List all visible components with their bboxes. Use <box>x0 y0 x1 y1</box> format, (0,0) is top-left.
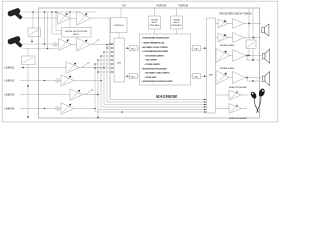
wire DAI1 to DSP <box>154 29 156 34</box>
input mixer MIX box <box>114 38 125 82</box>
svg-text:HEADPHONE AMP: HEADPHONE AMP <box>229 86 248 89</box>
svg-text:DAC: DAC <box>194 47 199 50</box>
junction dots left <box>22 11 123 118</box>
input mixer arrowheads <box>111 43 114 73</box>
ADC2 box <box>125 74 140 79</box>
microphone MIC2 <box>7 35 23 47</box>
receiver amp row1 <box>216 19 262 29</box>
svg-text:• NOISE GATE: • NOISE GATE <box>145 76 158 79</box>
svg-text:• AUTOMATIC LEVEL CONTROL: • AUTOMATIC LEVEL CONTROL <box>142 46 170 49</box>
svg-text:MIX: MIX <box>117 63 121 65</box>
DAC1 box <box>191 46 207 51</box>
speaker amp row1 <box>216 49 262 63</box>
speaker amp row2 <box>216 71 262 85</box>
svg-text:• EXCURSION LIMITER: • EXCURSION LIMITER <box>145 55 165 57</box>
wire MICBIAS1 out <box>31 37 33 42</box>
control box <box>111 18 128 33</box>
summing node mic2 <box>53 43 57 47</box>
speaker icon left <box>262 49 269 63</box>
output mixer MIX box <box>207 18 216 113</box>
svg-text:MAX98090: MAX98090 <box>156 94 178 99</box>
svg-text:FLEXSOUND TECHNOLOGY: FLEXSOUND TECHNOLOGY <box>143 37 171 39</box>
junction dots right side <box>246 23 254 82</box>
wire mic2 to MICBIAS2 <box>27 49 29 57</box>
svg-text:DIGITAL: DIGITAL <box>151 19 158 22</box>
svg-text:• ASYNCHRONOUS DIGITAL FILTERS: • ASYNCHRONOUS DIGITAL FILTERS <box>142 80 174 83</box>
svg-text:RECEIVER/LINEOUT AMPS: RECEIVER/LINEOUT AMPS <box>220 13 252 16</box>
digital audio interface box 2 <box>171 16 183 29</box>
headphone amp row1 <box>216 90 249 100</box>
svg-text:• THD LIMITER: • THD LIMITER <box>145 60 158 62</box>
svg-text:• 7-BAND PARAMETRIC EQ: • 7-BAND PARAMETRIC EQ <box>142 42 165 45</box>
svg-text:LINEIN3: LINEIN3 <box>5 92 15 96</box>
amplifier A5 line row3 <box>66 62 104 74</box>
wire drops to DMIC box <box>52 12 70 34</box>
wire DAI1 <box>154 8 156 16</box>
amplifier A6 line row4 <box>59 75 101 86</box>
headphone amp row2 <box>216 104 248 114</box>
svg-text:I²S/PCM: I²S/PCM <box>157 5 166 8</box>
summing node row4 <box>56 79 60 83</box>
switch row3 <box>82 64 88 68</box>
wire mic2 bottom <box>23 48 58 50</box>
analog bus verticals <box>95 18 206 118</box>
svg-text:• MICROPHONE PROCESSING: • MICROPHONE PROCESSING <box>142 68 168 70</box>
wire drop to MICBIAS1 <box>32 12 34 28</box>
svg-text:DIGITAL MICROPHONE: DIGITAL MICROPHONE <box>65 30 88 33</box>
svg-text:AUDIO: AUDIO <box>174 21 180 24</box>
amplifier A1 mic1 preamp <box>58 12 71 24</box>
outer figure frame <box>2 1 278 122</box>
wire DAI2 to DSP <box>176 29 178 34</box>
svg-text:• AUTOMATIC GAIN CONTROL: • AUTOMATIC GAIN CONTROL <box>145 72 171 75</box>
svg-text:DIGITAL: DIGITAL <box>173 19 180 22</box>
wire drop to row2 a <box>44 12 46 44</box>
output mixer input arrowheads from bottom bundle <box>204 99 207 113</box>
bus taps into input mixer <box>110 43 113 45</box>
wire line input row3 <box>20 67 66 69</box>
svg-text:INPUT: INPUT <box>73 34 80 36</box>
svg-text:DAC: DAC <box>194 75 199 78</box>
switch row5 <box>86 91 92 95</box>
svg-text:ADC: ADC <box>131 75 136 78</box>
svg-text:LINEIN2: LINEIN2 <box>5 78 15 82</box>
svg-text:I²C: I²C <box>122 4 126 8</box>
digital audio interface box 1 <box>149 16 161 29</box>
bottom routing bundle <box>110 99 206 101</box>
MICBIAS1 box <box>28 28 41 37</box>
svg-text:AUDIO: AUDIO <box>152 21 158 24</box>
svg-text:HEADPHONE AMP: HEADPHONE AMP <box>229 117 248 120</box>
svg-text:• POWER LIMITER: • POWER LIMITER <box>145 64 161 66</box>
svg-text:ADC: ADC <box>131 47 136 50</box>
wire line input row5 <box>20 94 70 96</box>
wire line input row4 <box>20 80 56 82</box>
digital microphone input box <box>62 28 92 38</box>
wire DAI2 <box>176 8 178 16</box>
svg-text:INTERFACE: INTERFACE <box>171 24 182 27</box>
receiver amp row2 <box>216 33 262 43</box>
svg-text:• LOUDSPEAKER PROCESSING: • LOUDSPEAKER PROCESSING <box>142 50 169 53</box>
earbuds icon <box>250 88 266 113</box>
microphone MIC1 <box>7 7 23 19</box>
amplifier A8 line row6 <box>59 103 95 114</box>
FlexSound DSP box <box>140 34 191 85</box>
PVDD lines to class-d block <box>249 8 253 40</box>
svg-text:SPEAKER AMP: SPEAKER AMP <box>220 44 235 47</box>
wire mic1 signal <box>23 17 58 19</box>
speaker icon right <box>262 72 269 86</box>
amplifier A7 line row5 <box>70 89 98 100</box>
svg-text:CONTROL: CONTROL <box>113 25 124 27</box>
wire control to mixer <box>118 33 120 39</box>
class-d supply block <box>246 40 256 60</box>
summing node row6 <box>56 107 60 111</box>
wire I2C to control <box>120 8 122 18</box>
wire drop to row2 b <box>47 12 49 49</box>
svg-text:SPEAKER AMP: SPEAKER AMP <box>220 67 235 70</box>
amplifier A4 mic2 PGA <box>57 38 113 52</box>
speaker icon receiver <box>262 24 269 36</box>
wire mic2 top <box>23 43 53 45</box>
wire mic1 top bus <box>23 11 96 13</box>
amplifier A2 mic1 PGA <box>71 11 111 25</box>
amplifier A3 mic2 preamp <box>59 39 72 51</box>
DAC2 box <box>191 74 207 79</box>
svg-text:MIX: MIX <box>209 75 213 77</box>
svg-text:LINEIN1: LINEIN1 <box>5 65 15 69</box>
svg-text:I²S/PCM: I²S/PCM <box>179 5 188 8</box>
wire MICBIAS2 down left rail <box>27 65 29 118</box>
ADC1 box <box>125 46 140 51</box>
svg-text:LINEIN4: LINEIN4 <box>5 106 15 110</box>
MICBIAS2 box <box>22 56 36 65</box>
wire line input row6 <box>20 108 56 110</box>
svg-text:INTERFACE: INTERFACE <box>149 24 160 27</box>
chip boundary MAX98090 <box>39 8 260 118</box>
